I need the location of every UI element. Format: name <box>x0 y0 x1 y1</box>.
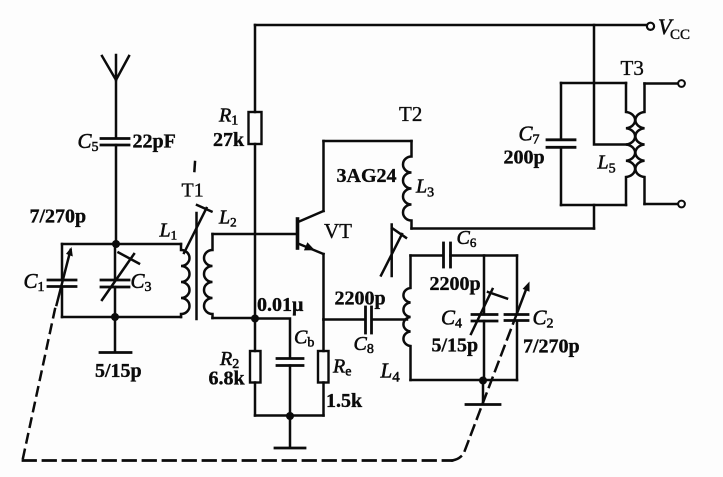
label C6 <box>457 227 477 250</box>
wire: right tank right edge <box>516 256 519 381</box>
label L4 <box>380 359 401 386</box>
wire: left tank bottom edge <box>62 316 181 319</box>
value 6.8k <box>209 368 246 390</box>
svg-text:7/270p: 7/270p <box>30 206 87 228</box>
value 5/15p (C3) <box>95 360 142 382</box>
value 200p <box>504 147 545 169</box>
dashed gang link C1 side <box>23 309 55 458</box>
wire: rail down to R1 <box>254 25 257 112</box>
capacitor C8 <box>366 307 372 333</box>
svg-text:5/15p: 5/15p <box>95 360 142 382</box>
wire: right tank bottom edge <box>411 379 518 382</box>
capacitor C6 <box>444 243 451 267</box>
wire: emitter network bottom <box>255 414 324 417</box>
inductor L3 <box>403 141 412 229</box>
wire: L3 bottom to T3 riser <box>412 227 595 230</box>
antenna <box>102 55 129 80</box>
label C3 <box>131 269 152 295</box>
C7/L5 box top edge <box>561 82 626 85</box>
wire: collector top to L3 <box>324 140 412 143</box>
svg-text:27k: 27k <box>213 129 245 151</box>
svg-text:7/270p: 7/270p <box>523 336 580 358</box>
C7/L5 box bottom edge <box>561 204 626 207</box>
label R2 <box>219 348 239 372</box>
label C4 <box>441 306 462 332</box>
capacitor C1 (variable) <box>48 244 76 317</box>
dashed gang link bottom <box>23 459 452 462</box>
T1 tick mark <box>193 162 196 171</box>
resistor R1 <box>249 112 262 144</box>
svg-text:6.8k: 6.8k <box>209 368 246 390</box>
label 3AG24 <box>337 165 397 187</box>
ground (emitter network) <box>275 416 305 448</box>
wire: bias node to Cb top <box>255 319 290 358</box>
wire: R1 bottom down to bias node <box>254 144 257 318</box>
svg-text:VT: VT <box>324 219 352 243</box>
label L2 <box>218 207 237 230</box>
label VT <box>324 219 352 243</box>
label T2 <box>399 102 422 126</box>
capacitor C4 (trimmer) <box>471 256 507 381</box>
terminal Vcc <box>647 23 654 30</box>
value 22pF <box>133 131 176 153</box>
svg-text:5/15p: 5/15p <box>432 335 479 357</box>
label Re <box>332 356 351 380</box>
inductor L4 <box>403 256 410 381</box>
inductor T3 secondary <box>635 84 644 205</box>
label C8 <box>354 333 374 357</box>
capacitor C5 <box>101 139 129 146</box>
svg-text:1.5k: 1.5k <box>326 390 363 412</box>
wire: base wire L2 to VT <box>213 233 297 236</box>
wire: riser up to C7/L5 box <box>593 205 596 229</box>
value 0.01u <box>257 294 304 316</box>
wire: C8 to L4 tap <box>372 318 407 321</box>
value 5/15p (C4) <box>432 335 479 357</box>
inductor L1 <box>181 244 190 317</box>
wire: emitter down <box>322 254 325 320</box>
wire: top supply rail <box>255 24 647 27</box>
T2 adjust arrow <box>381 225 406 277</box>
wire: secondary top lead <box>645 82 679 85</box>
wire: antenna stem to C5 <box>115 80 118 138</box>
node: tank bottom junction <box>111 313 119 321</box>
inductor L2 <box>204 234 213 318</box>
wire: collector up <box>322 141 325 211</box>
node: ground node dot <box>286 412 294 420</box>
svg-text:0.01μ: 0.01μ <box>257 294 304 316</box>
svg-text:22pF: 22pF <box>133 131 176 153</box>
label C2 <box>533 306 554 332</box>
wire: right tank top edge <box>411 254 518 257</box>
svg-text:T1: T1 <box>182 180 204 202</box>
value 7/270p (C2) <box>523 336 580 358</box>
wire: left tank top edge <box>62 243 181 246</box>
svg-text:3AG24: 3AG24 <box>337 165 397 187</box>
value 27k <box>213 129 245 151</box>
node: antenna/tank junction <box>112 240 120 248</box>
dashed gang link C2 side <box>452 308 519 461</box>
T1 adjust arrow <box>184 205 212 253</box>
resistor R2 <box>250 319 261 416</box>
wire: emitter to C8 <box>324 318 365 321</box>
svg-text:2200p: 2200p <box>335 288 386 310</box>
label T1 <box>182 180 204 202</box>
node: right tank bottom dot <box>479 377 487 385</box>
capacitor C7 <box>547 83 575 205</box>
wire: Vcc riser to L5 tap <box>594 25 627 145</box>
label L5 <box>597 152 616 177</box>
svg-text:2200p: 2200p <box>430 273 481 295</box>
label Vcc <box>658 14 690 43</box>
resistor Re <box>318 320 329 416</box>
value 2200p (C6) <box>430 273 481 295</box>
capacitor C2 (variable) <box>505 282 530 321</box>
wire: L2 bottom to bias node <box>213 317 256 320</box>
wire: secondary bottom lead <box>645 203 679 206</box>
svg-text:T2: T2 <box>399 102 422 126</box>
T1 core <box>195 213 198 319</box>
svg-text:200p: 200p <box>504 147 545 169</box>
ground (right tank) <box>466 381 500 405</box>
terminal: output bottom <box>678 201 685 208</box>
wire: C5 to tank top <box>115 145 118 244</box>
label R1 <box>218 105 238 129</box>
label C5 <box>78 129 99 155</box>
node: bias node dot <box>251 315 259 323</box>
inductor L5 (T3 primary) <box>626 83 635 205</box>
capacitor C3 (trimmer) <box>101 244 139 317</box>
value 7/270p (C1) <box>30 206 87 228</box>
terminal: output top <box>678 80 685 87</box>
value 2200p (C8) <box>335 288 386 310</box>
label Cb <box>294 327 314 351</box>
transistor VT <box>298 211 324 254</box>
svg-text:T3: T3 <box>621 56 644 80</box>
label C1 <box>24 269 45 295</box>
label T3 <box>621 56 644 80</box>
svg-text:CC: CC <box>670 27 690 43</box>
ground (left tank) <box>100 317 131 353</box>
value 1.5k <box>326 390 363 412</box>
capacitor Cb <box>277 359 303 417</box>
label L1 <box>159 220 178 243</box>
label C7 <box>519 122 540 148</box>
label L3 <box>415 176 434 201</box>
